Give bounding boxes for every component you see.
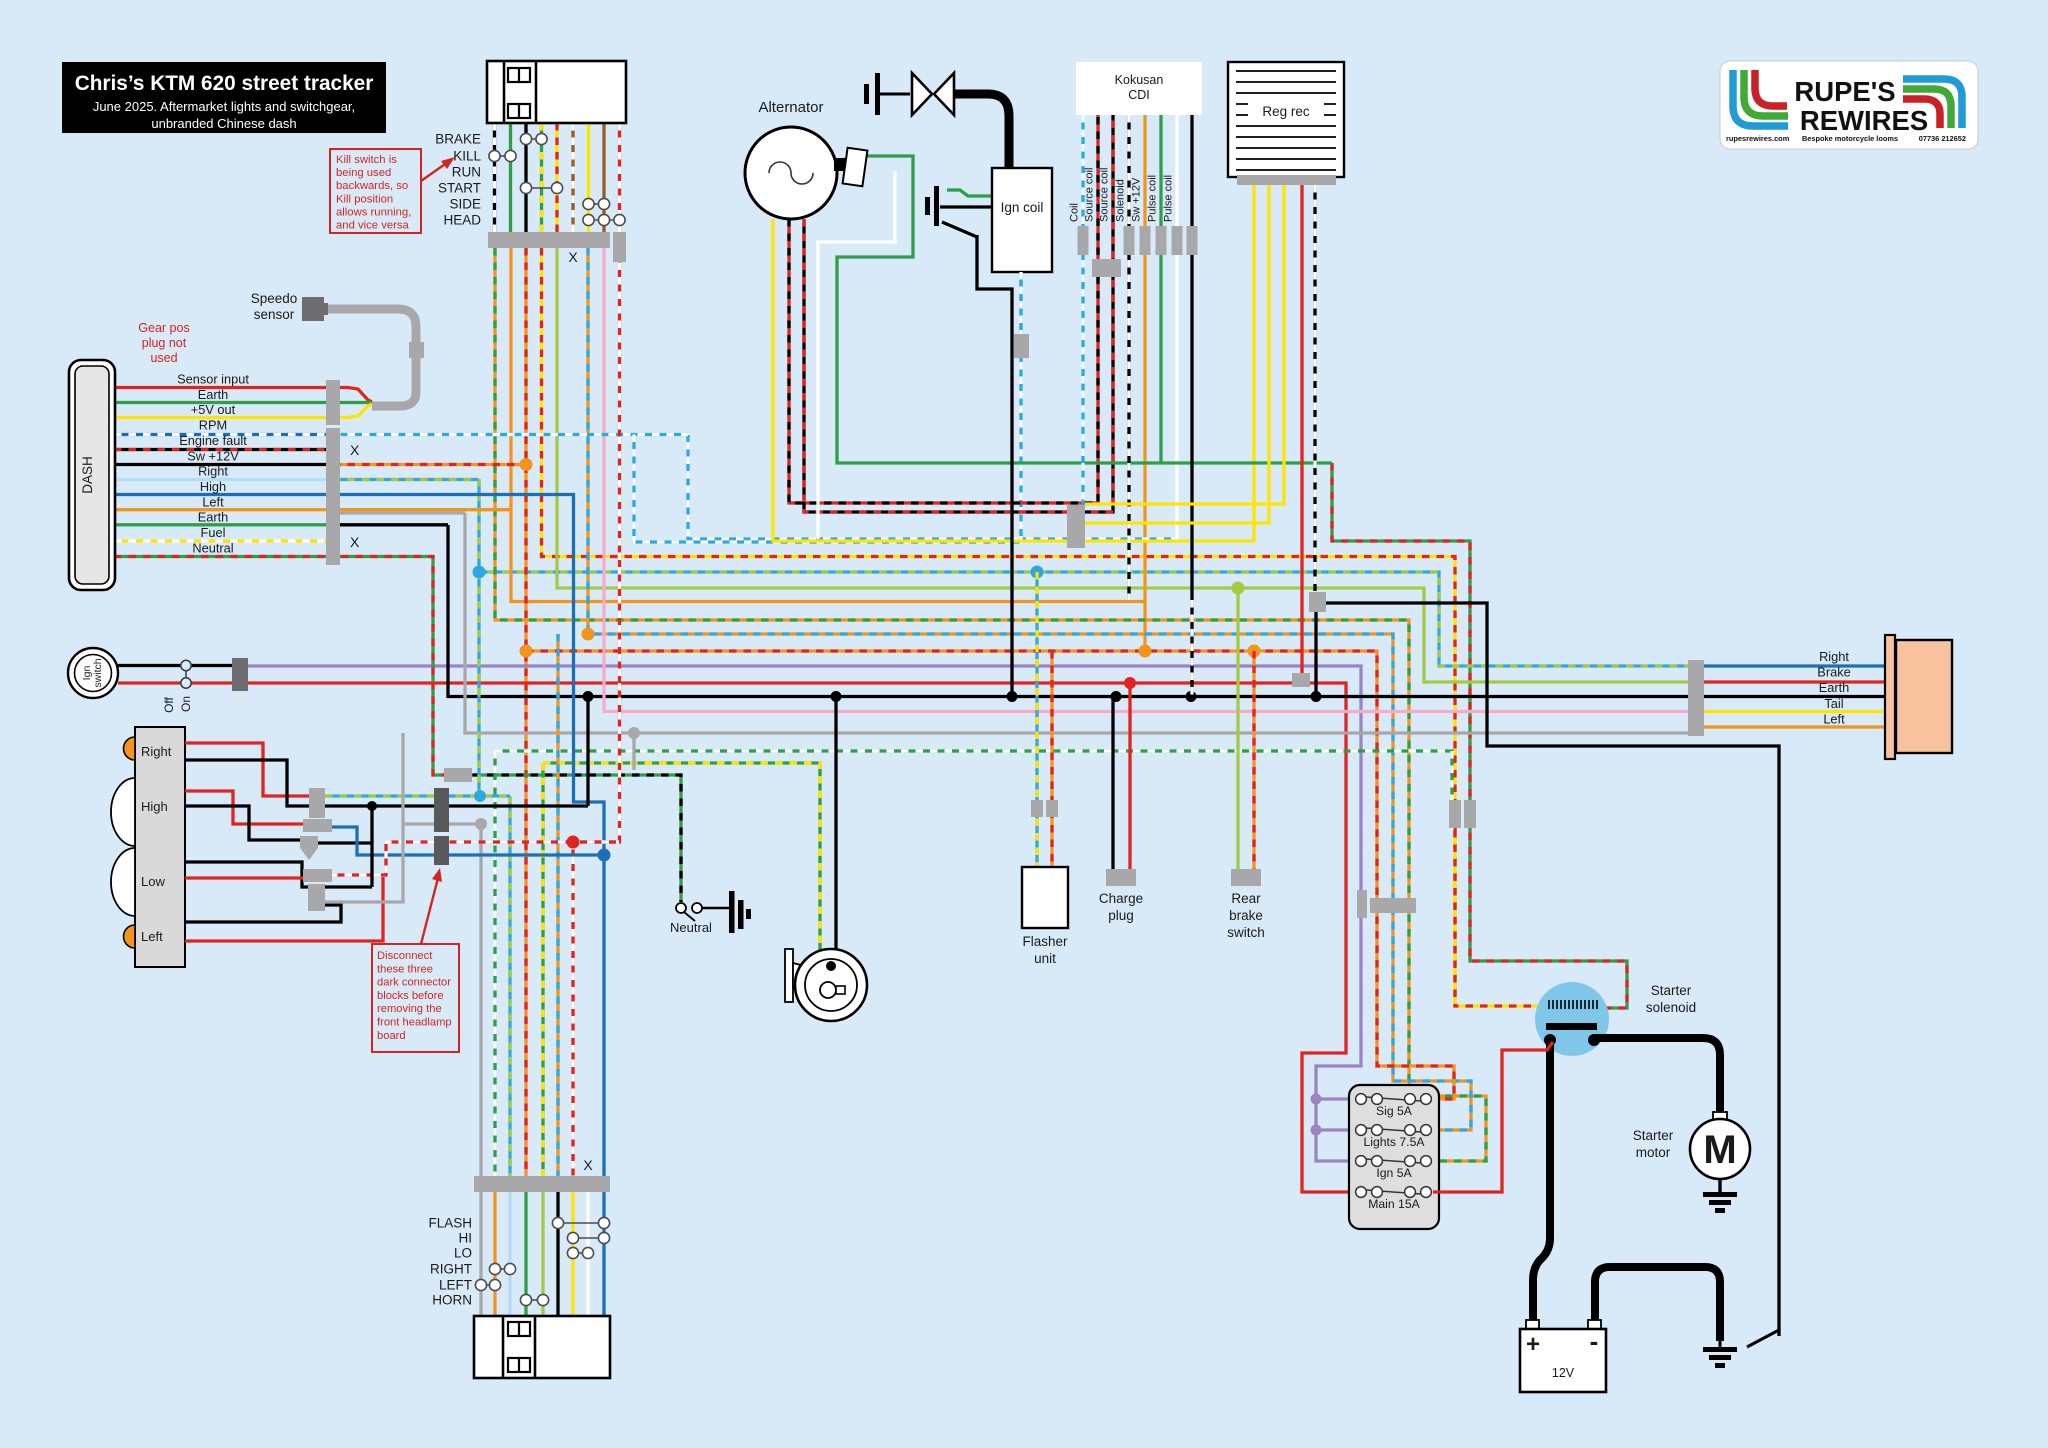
svg-text:Lights 7.5A: Lights 7.5A	[1364, 1135, 1426, 1149]
svg-text:X: X	[350, 534, 360, 550]
wire bc yellow	[571, 1192, 574, 1316]
headlamp board	[135, 727, 185, 967]
wire hl left black	[185, 905, 341, 922]
wire hl low red	[185, 876, 305, 879]
wire bc blue	[602, 1192, 605, 1316]
svg-text:Chris’s KTM 620 street tracker: Chris’s KTM 620 street tracker	[75, 72, 374, 95]
wire green/white-dash bus	[495, 751, 1452, 830]
starter solenoid	[1535, 982, 1609, 1056]
svg-text:Rear: Rear	[1231, 891, 1261, 906]
connector dash connector seg2	[326, 428, 340, 565]
wire orange/sky-dash drop to bottom	[556, 634, 559, 1176]
svg-text:High: High	[141, 799, 168, 814]
wire alternator red/black	[789, 115, 1098, 503]
ground symbol motor	[1718, 1179, 1721, 1192]
junction black junction horn	[831, 691, 842, 702]
wire lime bus (Brake)	[557, 248, 1688, 682]
ign switch	[68, 648, 118, 698]
bullet connectors SIDE	[583, 198, 610, 209]
svg-text:HI: HI	[459, 1231, 473, 1246]
connector block: right switchgear plug	[474, 1316, 610, 1378]
junction black junction regrec	[1311, 691, 1322, 702]
junction black junction charge	[1111, 691, 1122, 702]
wire ign coil black earth	[977, 235, 1012, 697]
svg-text:these three: these three	[377, 963, 433, 975]
svg-text:Sig 5A: Sig 5A	[1376, 1104, 1413, 1118]
connector hl connector D	[303, 869, 332, 882]
connector ign coil connector	[1014, 334, 1029, 358]
wire charge red drop	[1128, 683, 1131, 869]
svg-text:X: X	[568, 249, 578, 265]
svg-text:blocks before: blocks before	[377, 990, 444, 1002]
connector cdi connector x1145	[1140, 226, 1151, 255]
wire hl sky/lime link	[325, 794, 510, 797]
svg-text:Right: Right	[198, 464, 228, 479]
wire switch wire green	[509, 123, 512, 232]
wire cdi black	[1190, 115, 1193, 600]
battery minus lead	[1595, 1267, 1720, 1341]
connector cdi/regrec joint connector	[1067, 505, 1085, 548]
wire main fuse to solenoid red	[1433, 1042, 1553, 1192]
wire switch wire brown/white	[571, 123, 574, 232]
annotation: disconnect note	[372, 944, 459, 1052]
wire dash earth green	[114, 401, 372, 404]
svg-text:plug: plug	[1108, 908, 1134, 923]
wire hl black mid link	[317, 885, 372, 888]
junction black junction 588	[583, 691, 594, 702]
junction orange junction 634	[582, 628, 595, 641]
connector hl connector A	[309, 788, 325, 818]
wire purple bus	[247, 666, 1361, 1161]
svg-text:Right: Right	[1819, 649, 1849, 664]
wire ign switch red	[118, 681, 232, 684]
svg-text:07736 212652: 07736 212652	[1919, 134, 1966, 143]
svg-text:Speedo: Speedo	[251, 291, 298, 306]
connector fuse feed connector wide	[1370, 898, 1416, 913]
connector cdi connector x1083	[1078, 226, 1089, 255]
wire rear right blue	[1704, 664, 1886, 667]
svg-text:Left: Left	[202, 494, 224, 509]
svg-text:Starter: Starter	[1651, 983, 1692, 998]
wire horn black drop	[834, 697, 837, 953]
neutral switch	[676, 903, 702, 921]
svg-text:Kokusan: Kokusan	[1115, 73, 1164, 87]
svg-text:FLASH: FLASH	[428, 1216, 472, 1231]
wire orange bus	[511, 248, 1145, 602]
wire alternator yellow	[773, 185, 1254, 541]
wire switch wire yellow	[587, 123, 590, 232]
wire rear tail yellow	[1704, 710, 1886, 713]
wire regrec yellow3	[1085, 185, 1284, 504]
svg-text:HORN: HORN	[432, 1293, 472, 1308]
wire flasher sky/yellow drop	[1035, 572, 1038, 867]
svg-text:LEFT: LEFT	[439, 1278, 472, 1293]
svg-text:RUPE'S: RUPE'S	[1794, 76, 1895, 107]
wire orange/sky-dash bus	[588, 248, 1471, 1130]
wire dash engine-fault black/red-dash	[114, 448, 340, 451]
battery	[1526, 1320, 1539, 1330]
wire cdi black/white low	[1190, 600, 1193, 697]
svg-text:X: X	[583, 1157, 593, 1173]
svg-text:unbranded Chinese dash: unbranded Chinese dash	[151, 116, 296, 131]
junction orange junction cdi	[1139, 645, 1152, 658]
wire hl high red	[185, 791, 305, 824]
wire charge black drop	[1111, 697, 1114, 870]
wire rear brake red	[1704, 680, 1886, 683]
svg-text:Pulse coil: Pulse coil	[1163, 175, 1175, 222]
wire ign switch black	[118, 664, 232, 667]
connector speedo inline connector	[409, 342, 424, 358]
svg-text:Kill position: Kill position	[336, 193, 393, 205]
wire green/yellow-dash drop to bottom	[541, 763, 544, 1176]
wire bc green	[524, 1192, 527, 1316]
wire red bus	[247, 683, 1355, 1192]
wire ign coil green	[947, 190, 992, 196]
wire gray bus drop	[632, 733, 635, 770]
svg-text:Sw +12V: Sw +12V	[1131, 177, 1143, 222]
connector solenoid feed conn1	[1449, 800, 1461, 828]
connector cdi connector x1161	[1156, 226, 1167, 255]
wire hl right red	[185, 743, 311, 796]
svg-text:unit: unit	[1034, 951, 1056, 966]
junction black junction hl	[367, 801, 377, 811]
svg-text:June 2025. Aftermarket lights: June 2025. Aftermarket lights and switch…	[93, 99, 355, 114]
connector block: left switchgear plug	[487, 61, 626, 123]
annotation arrow	[421, 162, 448, 181]
ground symbol neutral	[729, 891, 735, 933]
svg-text:Starter: Starter	[1633, 1128, 1674, 1143]
wire switch wire black	[524, 123, 527, 232]
svg-text:sensor: sensor	[254, 307, 295, 322]
wire regrec black/white	[1313, 185, 1316, 597]
svg-text:Off: Off	[162, 696, 176, 712]
wire sky/green-dash bus (Right)	[479, 479, 1688, 666]
starter motor	[1713, 1112, 1727, 1121]
junction red junction	[567, 836, 580, 849]
svg-text:KILL: KILL	[453, 149, 481, 164]
wire pink bus (Tail)	[604, 248, 1688, 712]
connector solenoid feed conn2	[1464, 800, 1476, 828]
Rupes Rewires logo	[1720, 61, 1978, 149]
connector fuse feed connector purple	[1357, 890, 1367, 918]
junction gray junction bus	[628, 727, 640, 739]
svg-text:Reg rec: Reg rec	[1262, 104, 1310, 119]
wire dash sw+12V black	[114, 463, 333, 466]
wire bc lime	[541, 1192, 544, 1316]
wire bc orange	[493, 1192, 496, 1316]
connector regrec plug	[1309, 592, 1326, 612]
connector speedo plug	[302, 297, 324, 321]
junction lime junction rearbrake	[1232, 582, 1245, 595]
HT lead	[954, 94, 1009, 168]
wire rear earth black	[1704, 695, 1886, 698]
svg-text:switch: switch	[1227, 925, 1265, 940]
bullet connectors BRAKE	[520, 133, 547, 144]
junction sky junction flasher	[1031, 566, 1044, 579]
wire switch wire green/yellow	[540, 123, 543, 232]
wire dash neutral green/red-dash	[114, 555, 341, 558]
connector hl connector C	[300, 836, 318, 848]
right indicator bulb	[124, 737, 135, 760]
connector cdi connector x1177	[1172, 226, 1183, 255]
connector top loom bar	[488, 232, 610, 248]
wire hl black vertical	[370, 806, 373, 887]
wire cdi coil sky/white	[1081, 115, 1084, 505]
svg-text:Pulse coil: Pulse coil	[1147, 175, 1159, 222]
connector top loom bar stub	[613, 232, 626, 262]
svg-text:DASH: DASH	[80, 456, 95, 494]
svg-text:High: High	[200, 479, 226, 494]
bullet connectors HEAD	[583, 214, 625, 225]
connector C arrow	[300, 848, 318, 860]
wire regrec earth drop	[1314, 603, 1317, 697]
wire flasher orange/red drop	[1050, 651, 1053, 867]
svg-text:M: M	[1703, 1128, 1736, 1172]
junction purple junction f2	[1311, 1125, 1322, 1136]
low beam bulb	[111, 848, 135, 916]
svg-text:board: board	[377, 1030, 406, 1042]
bullet connectors KILL	[489, 150, 516, 161]
junction orange junction rearbrake	[1248, 645, 1261, 658]
svg-text:Main 15A: Main 15A	[1368, 1197, 1420, 1211]
svg-text:Charge: Charge	[1099, 891, 1143, 906]
connector dash connector seg1	[326, 380, 340, 425]
svg-text:X: X	[350, 442, 360, 458]
svg-text:solenoid: solenoid	[1646, 1000, 1696, 1015]
svg-text:RPM: RPM	[199, 418, 227, 433]
solenoid to motor thick lead	[1594, 1038, 1720, 1118]
spark plug 2	[925, 197, 930, 215]
bullet connectors RIGHT	[489, 1263, 515, 1274]
junction gray junction	[475, 818, 487, 830]
svg-text:Engine fault: Engine fault	[179, 433, 247, 448]
svg-text:+5V out: +5V out	[191, 402, 236, 417]
fuse Ign 5A	[1356, 1156, 1432, 1167]
wire cdi orange sw12	[1143, 115, 1146, 651]
fuse box	[1349, 1085, 1439, 1229]
connector ign switch connector	[232, 658, 248, 691]
wire hl black link	[317, 841, 372, 844]
wire cdi green pulse	[1159, 115, 1162, 463]
svg-text:Kill switch is: Kill switch is	[336, 154, 397, 166]
wire hl left red	[185, 877, 383, 941]
bullet connectors LO	[567, 1247, 593, 1258]
svg-text:HEAD: HEAD	[443, 213, 481, 228]
wire green/red-dash solenoid feed	[1332, 463, 1627, 1008]
svg-text:brake: brake	[1229, 908, 1263, 923]
wire dash gray backlight	[333, 511, 465, 514]
svg-text:plug not: plug not	[142, 336, 187, 350]
bullet connectors HORN	[520, 1294, 548, 1305]
ground symbol battery	[1747, 1330, 1779, 1347]
annotation: kill switch note	[330, 149, 421, 233]
wire green/black-dash neutral feed	[458, 775, 681, 902]
svg-text:Ign coil: Ign coil	[1001, 200, 1044, 215]
connector bottom loom bar	[474, 1176, 610, 1192]
wire hl red/white link	[330, 842, 617, 875]
svg-text:and vice versa: and vice versa	[336, 220, 410, 232]
wire hl low black	[185, 862, 312, 887]
svg-text:allows running,: allows running,	[336, 206, 411, 218]
wire green/white-dash drop to bottom	[493, 751, 496, 1176]
wire bc black	[556, 1192, 559, 1316]
ign switch contacts	[181, 660, 191, 688]
svg-text:START: START	[438, 181, 481, 196]
wire cdi white pulse	[1175, 115, 1178, 539]
wire bc paleblue	[508, 1192, 511, 1316]
wire orange/red-dash bus	[524, 248, 527, 1176]
svg-text:dark connector: dark connector	[377, 977, 451, 989]
fuse Sig 5A	[1356, 1094, 1432, 1105]
fuse Lights 7.5A	[1356, 1125, 1432, 1136]
dark connector block 2	[434, 836, 449, 865]
wire rearbrake lime drop	[1236, 588, 1239, 869]
wire blue drop to bottom	[602, 855, 605, 1176]
svg-text:rupesrewires.com: rupesrewires.com	[1726, 134, 1790, 143]
connector charge plug connector	[1106, 869, 1136, 886]
svg-text:Earth: Earth	[1819, 680, 1850, 695]
wire hl gray link	[325, 733, 403, 902]
wire yellow/green-dash horn feed	[543, 763, 820, 952]
wire regrec earth black	[1318, 603, 1779, 1336]
wire gray bus (Left)	[465, 513, 1688, 733]
svg-text:12V: 12V	[1552, 1366, 1575, 1380]
svg-text:Gear pos: Gear pos	[138, 321, 189, 335]
svg-text:RIGHT: RIGHT	[430, 1262, 472, 1277]
bullet connectors FLASH	[552, 1217, 609, 1228]
wire alternator green	[837, 156, 1332, 463]
connector regrec bar	[1237, 175, 1336, 185]
wire sky/lime-dash vertical	[477, 572, 480, 796]
wire bc gray	[479, 1192, 482, 1316]
connector rear brake connector	[1231, 869, 1261, 886]
svg-text:CDI: CDI	[1128, 88, 1150, 102]
svg-text:Left: Left	[1823, 712, 1845, 727]
svg-text:+: +	[1526, 1331, 1540, 1358]
svg-text:LO: LO	[454, 1246, 472, 1261]
wire sky/lime-dash drop to bottom	[508, 796, 511, 1176]
svg-text:SIDE: SIDE	[449, 197, 481, 212]
wire dash RPM branch to ign coil	[634, 272, 1021, 542]
wire regrec red	[1300, 185, 1303, 678]
wire red/white-dash trunk	[573, 248, 620, 842]
svg-text:BRAKE: BRAKE	[435, 132, 481, 147]
junction sky junction right	[473, 566, 486, 579]
wire dash sw+12V orange/red-dash	[333, 463, 526, 466]
junction purple junction f1	[1311, 1094, 1322, 1105]
bullet connectors START	[520, 182, 562, 193]
svg-text:Tail: Tail	[1824, 696, 1843, 711]
junction solenoid pin left	[1544, 1034, 1556, 1046]
wire switch wire brown	[602, 123, 605, 232]
wire dash right sky/lime-dash	[333, 478, 479, 481]
svg-text:REWIRES: REWIRES	[1800, 105, 1928, 136]
alternator plug	[834, 158, 846, 171]
left indicator bulb	[124, 925, 135, 948]
wire alternator black/red	[804, 115, 1113, 512]
junction orange junction 651	[520, 645, 533, 658]
dark connector block 1	[434, 788, 449, 832]
connector cdi connector x1129	[1124, 226, 1135, 255]
wire hl blue link	[330, 827, 604, 855]
svg-text:Ign 5A: Ign 5A	[1376, 1166, 1412, 1180]
annotation arrow2	[421, 878, 438, 944]
high beam bulb	[111, 778, 135, 846]
connector flasher conn2	[1046, 800, 1058, 817]
svg-text:backwards, so: backwards, so	[336, 180, 408, 192]
wire hl right black	[185, 760, 588, 806]
svg-text:being used: being used	[336, 167, 391, 179]
junction blue junction low	[598, 849, 611, 862]
junction black junction igncoil	[1007, 691, 1018, 702]
title block	[62, 62, 386, 133]
wire regrec yellow2	[1085, 185, 1269, 523]
wire orange/green-dash bus	[495, 248, 1486, 1161]
svg-text:Sw +12V: Sw +12V	[187, 448, 239, 463]
wire dash +5V yellow	[114, 404, 372, 418]
svg-text:Right: Right	[141, 744, 172, 759]
connector hl connector B	[303, 819, 332, 832]
wire orange/red-dash bus horiz	[526, 651, 1454, 1099]
svg-text:Source coil: Source coil	[1084, 168, 1096, 222]
junction orange junction sw12	[520, 458, 533, 471]
solenoid to battery thick lead	[1533, 1040, 1550, 1322]
svg-text:Brake: Brake	[1817, 665, 1850, 680]
wire rearbrake orange/red drop	[1252, 651, 1255, 869]
flasher unit	[1022, 867, 1068, 928]
wire dash earth2 black	[333, 523, 448, 526]
svg-text:Fuel: Fuel	[201, 525, 226, 540]
wire switch wire red/white	[618, 123, 621, 232]
wire cdi solenoid black/white	[1127, 115, 1130, 600]
connector cdi connector x1192	[1187, 226, 1198, 255]
wire vertical black to earth bus	[586, 697, 589, 807]
svg-text:Coil: Coil	[1069, 203, 1081, 222]
svg-text:front headlamp: front headlamp	[377, 1017, 452, 1029]
wire ign coil black to plug	[940, 205, 992, 208]
fuse Main 15A	[1356, 1187, 1432, 1198]
wire hl gray branch	[403, 822, 481, 825]
svg-text:used: used	[150, 351, 177, 365]
wire dash high blue	[114, 495, 604, 861]
svg-text:Neutral: Neutral	[192, 540, 233, 555]
wire ign coil sky/white out	[1019, 272, 1022, 340]
junction blue junction	[474, 790, 486, 802]
svg-text:Solenoid: Solenoid	[1115, 179, 1127, 222]
wire switch wire yellow/red	[555, 123, 558, 232]
svg-text:Low: Low	[141, 874, 165, 889]
svg-text:Alternator: Alternator	[758, 99, 823, 116]
svg-text:-: -	[1590, 1326, 1599, 1356]
junction black junction cdi	[1186, 691, 1197, 702]
bullet connectors HI	[567, 1232, 609, 1243]
connector speedo plug tab	[322, 303, 328, 315]
speedo sensor cable	[322, 309, 416, 406]
svg-text:Source coil: Source coil	[1099, 168, 1111, 222]
junction solenoid pin right	[1588, 1034, 1600, 1046]
DASH unit	[69, 360, 115, 590]
bullet connectors LEFT	[475, 1279, 500, 1290]
wire dash RPM sky/white-dash	[333, 435, 1177, 540]
connector flasher conn1	[1031, 800, 1043, 817]
connector rear connector block	[1688, 660, 1704, 736]
wire dash left orange	[114, 508, 511, 511]
wire black earth bus	[448, 525, 1688, 697]
svg-text:Flasher: Flasher	[1022, 934, 1068, 949]
spark gap symbol	[912, 73, 932, 115]
connector connector H (gray plug)	[444, 768, 472, 782]
wire purple fuse stub 1	[1316, 1097, 1355, 1100]
